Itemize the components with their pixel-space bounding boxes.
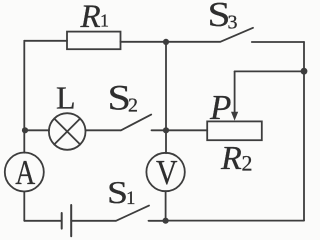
svg-text:A: A	[15, 153, 36, 192]
lamp L	[49, 113, 86, 150]
svg-text:1: 1	[126, 188, 136, 209]
resistor R1	[67, 32, 121, 50]
switch S1	[116, 206, 149, 221]
svg-text:1: 1	[100, 11, 109, 31]
wire S1 to node D	[149, 220, 166, 222]
wire V to bottom	[165, 191, 167, 220]
voltmeter V	[146, 153, 184, 191]
wire wiper horizontal	[235, 70, 304, 72]
wire battery to S1	[71, 220, 116, 222]
svg-text:3: 3	[228, 11, 238, 33]
wire R1 to node B	[121, 41, 167, 43]
wire wiper vertical	[234, 71, 236, 113]
wire left rail bottom	[23, 192, 25, 221]
wire top left segment	[24, 40, 67, 42]
wiper arrowhead	[231, 112, 238, 121]
svg-text:R: R	[220, 140, 242, 177]
node wiper-rail junction dot	[301, 68, 308, 75]
switch S3	[220, 28, 253, 42]
ammeter A	[5, 153, 44, 192]
svg-text:2: 2	[128, 95, 138, 117]
node D junction dot	[163, 218, 169, 224]
switch S2	[121, 115, 151, 131]
rheostat R2	[207, 121, 262, 140]
node B junction dot	[163, 39, 169, 45]
node S2-rail junction dot	[163, 127, 169, 133]
wire right rail	[303, 42, 305, 220]
svg-text:S: S	[107, 174, 128, 210]
wire node B to S3	[166, 41, 220, 43]
svg-text:R: R	[80, 0, 101, 35]
wire bottom left	[24, 220, 61, 222]
svg-text:L: L	[56, 80, 76, 116]
svg-text:V: V	[156, 153, 178, 192]
svg-text:P: P	[209, 88, 231, 127]
wire S3 to right rail	[252, 41, 304, 43]
wire lamp to S2	[86, 129, 121, 131]
wire S2 to R2	[152, 129, 208, 131]
wire left rail top	[23, 41, 25, 153]
wire bottom right	[166, 220, 304, 222]
wire node B down rail	[165, 42, 167, 153]
svg-text:2: 2	[242, 151, 253, 176]
wire node C to lamp	[24, 129, 49, 131]
battery cell	[62, 205, 71, 236]
node C junction dot	[22, 127, 28, 133]
